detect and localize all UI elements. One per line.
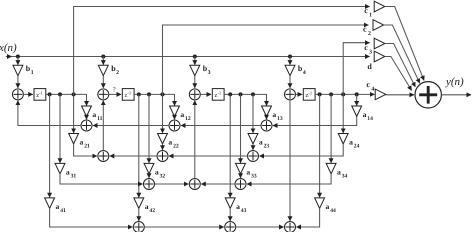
- node: tap junction state 3: [239, 92, 243, 96]
- node: junction on x(n) line for b4: [288, 55, 292, 59]
- svg-text:c: c: [363, 25, 367, 34]
- wire: vertical from state adder 4 down into last row-4 adder: [289, 100, 291, 221]
- wire: b2 output into adder: [102, 76, 104, 88]
- svg-text:41: 41: [60, 208, 66, 214]
- wire: state 3 tap down to a43: [229, 94, 231, 197]
- wire: a34 output down and left into row-3 adder under a33: [247, 174, 331, 184]
- svg-text:a: a: [66, 167, 70, 176]
- wire: adder 3 output into delay: [200, 93, 211, 95]
- wire: a32 output into row-3 adder: [148, 174, 150, 178]
- wire: state 4 output line continuing to c4: [315, 93, 374, 95]
- multiplier c1 (output coefficient): [374, 1, 385, 12]
- node: tap junction state 1: [58, 92, 62, 96]
- svg-text:33: 33: [251, 174, 257, 180]
- wire: row-3 sum up into state adder 3: [194, 101, 196, 179]
- wire: state 3 output line with taps, into a13: [224, 94, 266, 105]
- svg-text:a: a: [349, 138, 353, 147]
- multiplier a24: [338, 134, 348, 144]
- wire: y(n) output arrow: [441, 94, 471, 96]
- node: tap junction state 1: [72, 92, 76, 96]
- node: tap junction state 2: [147, 92, 151, 96]
- svg-text:12: 12: [185, 116, 191, 122]
- wire: row-2 sum up into state adder 2: [102, 101, 104, 151]
- multiplier a42: [134, 198, 144, 208]
- wire: a33 output into row-3 adder: [240, 174, 242, 178]
- wire: a12 output into row-1 adder: [174, 116, 176, 119]
- summing node row4-b (under a43): [225, 222, 236, 233]
- wire: state 2 tap down to a42: [138, 94, 140, 197]
- multiplier b2: [98, 65, 108, 75]
- wire: adder 1 output into delay: [23, 93, 33, 95]
- svg-text:a: a: [92, 110, 96, 119]
- wire: tap down into b3: [194, 57, 196, 65]
- wire: row-1 chain into adder under a12: [181, 125, 261, 127]
- wire: b1 output into adder: [17, 76, 19, 88]
- multiplier a43: [225, 198, 235, 208]
- wire: tap down into b1: [17, 57, 19, 65]
- delay element z^-1 (state 4): [303, 89, 315, 101]
- wire: b4 output into adder: [289, 76, 291, 88]
- svg-text:43: 43: [241, 208, 247, 214]
- node: junction on x(n) line for b1: [16, 55, 20, 59]
- node: tap junction state 2: [137, 92, 141, 96]
- wire: state 4 tap down to a44: [319, 94, 321, 197]
- svg-text:a: a: [337, 167, 341, 176]
- summing node (state 3 adder): [189, 89, 200, 100]
- node: tap junction state 2: [161, 92, 165, 96]
- wire: row-1 sum left and up into state adder 1: [18, 101, 81, 126]
- multiplier a41: [45, 198, 55, 208]
- wire: state 2 riser up to c2 line: [163, 25, 369, 94]
- summing node row2-b (under a22): [157, 151, 168, 162]
- wire: a24 output down and left into row-2 adder under a23: [259, 144, 343, 156]
- wire: c3 output diagonal into output adder: [385, 44, 416, 87]
- svg-text:11: 11: [97, 116, 102, 122]
- node: junction on x(n) line for b2: [101, 55, 105, 59]
- svg-text:y(n): y(n): [445, 76, 464, 88]
- svg-text:22: 22: [173, 144, 179, 150]
- wire: state 2 tap down to a22: [162, 94, 164, 132]
- wire: state 1 riser up to c1 line: [74, 7, 370, 95]
- svg-text:a: a: [180, 110, 184, 119]
- svg-text:a: a: [168, 138, 172, 147]
- delay element z^-1 (state 1): [34, 89, 46, 101]
- wire: state 4 tap down to a14: [356, 94, 358, 105]
- svg-text:x(n): x(n): [0, 42, 17, 54]
- node: tap junction state 4: [341, 92, 345, 96]
- wire: state 2 tap down to a32: [148, 94, 150, 162]
- svg-text:a: a: [246, 167, 250, 176]
- multiplier a22: [158, 134, 168, 144]
- multiplier a11: [82, 106, 92, 116]
- summing node row1-b (under a12): [169, 120, 180, 131]
- svg-text:3: 3: [208, 70, 211, 76]
- summing node row3-b (below state adder 3): [189, 179, 200, 190]
- svg-text:2: 2: [368, 31, 371, 37]
- svg-text:13: 13: [277, 116, 283, 122]
- svg-text:c: c: [366, 80, 370, 89]
- svg-text:23: 23: [264, 144, 270, 150]
- multiplier a34: [326, 163, 336, 173]
- wire: b3 output into adder: [194, 76, 196, 88]
- multiplier c2 (output coefficient): [373, 20, 384, 31]
- wire: state 1 output line with taps, into a11: [46, 94, 87, 105]
- multiplier a12: [170, 106, 180, 116]
- svg-text:2: 2: [116, 70, 119, 76]
- svg-text:24: 24: [354, 144, 360, 150]
- wire: state 1 tap down to a31: [59, 94, 61, 162]
- svg-text:c: c: [364, 6, 368, 15]
- multiplier a44: [315, 198, 325, 208]
- wire: row-4 chain into last row-4 adder: [236, 226, 284, 228]
- summing node row1-a (under a11): [81, 120, 92, 131]
- svg-text:4: 4: [371, 86, 374, 92]
- wire: a21 output down and right into row-2 first adder: [74, 144, 97, 156]
- multiplier a21: [69, 134, 79, 144]
- svg-text:34: 34: [342, 174, 348, 180]
- wire: c1 output diagonal into output adder: [385, 7, 424, 81]
- wire: row-3 left chain into middle row-3 adder: [154, 183, 188, 185]
- multiplier b4: [285, 65, 295, 75]
- svg-text:a: a: [145, 202, 149, 211]
- node: junction on x(n) line for b3: [193, 55, 197, 59]
- summing node row4-c (below state adder 4): [285, 222, 296, 233]
- wire: a43 output into row-4 adder: [229, 208, 231, 221]
- multiplier d (output coefficient): [374, 51, 385, 62]
- wire: row-3 right chain into middle row-3 adder: [201, 183, 235, 185]
- wire: c2 output diagonal into output adder: [384, 25, 420, 83]
- svg-text:42: 42: [149, 208, 155, 214]
- wire: a41 output down and right into row-4 adder under a42: [50, 208, 133, 227]
- summing node (state 2 adder): [98, 89, 109, 100]
- wire: a13 output into row-1 adder: [266, 116, 268, 119]
- delay element z^-1 (state 2): [122, 89, 134, 101]
- svg-text:4: 4: [303, 70, 306, 76]
- svg-text:21: 21: [84, 144, 90, 150]
- wire: adder 2 output into delay: [109, 93, 121, 95]
- wire: state 3 tap down to a23: [252, 94, 254, 132]
- summing node (state 4 adder): [285, 89, 296, 100]
- wire: row-2 chain into adder under a22: [169, 155, 248, 157]
- wire: x(n) main horizontal line to coefficient d: [12, 56, 370, 58]
- wire: state 2 output line with taps, into a12: [134, 94, 174, 105]
- wire: row-2 chain into first row-2 adder: [110, 155, 157, 157]
- summing node row2-c (under a23): [248, 151, 259, 162]
- wire: state 4 riser up to c3 line: [343, 43, 369, 95]
- wire: tap down into b4: [289, 57, 291, 65]
- summing node row1-c (under a13): [261, 120, 272, 131]
- wire: tap down into b2: [102, 57, 104, 65]
- wire: state 3 tap down to a33: [240, 94, 242, 162]
- wire: row-1 chain into adder under a11: [93, 125, 169, 127]
- node: tap junction state 3: [228, 92, 232, 96]
- multiplier b3: [190, 65, 200, 75]
- summing node row2-a (below state adder 2): [98, 151, 109, 162]
- wire: a44 output down and left into last row-4 adder: [296, 208, 319, 227]
- multiplier a14: [352, 106, 362, 116]
- svg-text:1: 1: [369, 12, 372, 18]
- svg-text:a: a: [80, 138, 84, 147]
- summing node row3-c (under a33): [235, 179, 246, 190]
- summing node row4-a (under a42): [133, 222, 144, 233]
- wire: a22 output into row-2 adder: [162, 144, 164, 150]
- wire: a11 output into row-1 adder: [86, 116, 88, 119]
- svg-text:d: d: [367, 62, 372, 71]
- node: tap junction state 4: [318, 92, 322, 96]
- node: tap junction state 4: [329, 92, 333, 96]
- svg-text:c: c: [364, 43, 368, 52]
- summing node row3-a (under a32): [144, 179, 155, 190]
- svg-text:a: a: [272, 110, 276, 119]
- svg-text:a: a: [363, 110, 367, 119]
- multiplier a31: [55, 163, 65, 173]
- wire: state 1 tap down to a41: [49, 94, 51, 197]
- multiplier a23: [248, 134, 258, 144]
- svg-text:31: 31: [71, 174, 77, 180]
- svg-text:44: 44: [330, 208, 336, 214]
- multiplier b1: [13, 65, 23, 75]
- node: tap junction state 1: [48, 92, 52, 96]
- svg-text:14: 14: [367, 116, 373, 122]
- wire: a14 output down and left into row-1 adder: [273, 116, 357, 125]
- multiplier a33: [236, 163, 246, 173]
- node: tap junction state 3: [251, 92, 255, 96]
- svg-text:3: 3: [369, 49, 372, 55]
- summing node (state 1 adder): [12, 89, 23, 100]
- output summing node: [415, 82, 441, 108]
- wire: adder 4 output into delay: [295, 93, 302, 95]
- svg-text:a: a: [155, 167, 159, 176]
- wire: a31 output down and right into row-3 adder under a32: [60, 174, 143, 184]
- multiplier a32: [144, 163, 154, 173]
- svg-text:1: 1: [31, 70, 34, 76]
- svg-text:a: a: [326, 202, 330, 211]
- svg-text:?: ?: [113, 86, 116, 94]
- svg-text:a: a: [259, 138, 263, 147]
- wire: c4 output into output adder: [386, 94, 414, 96]
- wire: a42 output into row-4 adder: [138, 208, 140, 221]
- svg-text:a: a: [236, 202, 240, 211]
- multiplier c3 (output coefficient): [374, 38, 385, 49]
- wire: x(n) source arrow: [6, 56, 12, 58]
- svg-text:a: a: [56, 202, 60, 211]
- multiplier c4 (output coefficient): [375, 89, 386, 100]
- multiplier a13: [262, 106, 272, 116]
- wire: a23 output into row-2 adder: [252, 144, 254, 150]
- wire: state 4 tap down to a34: [330, 94, 332, 162]
- svg-text:32: 32: [160, 174, 166, 180]
- delay element z^-1 (state 3): [212, 89, 224, 101]
- node: tap junction state 4: [355, 92, 359, 96]
- wire: d output diagonal into output adder: [385, 57, 412, 91]
- wire: state 4 tap down to a24: [342, 94, 344, 132]
- wire: state 1 tap down to a21: [73, 94, 75, 132]
- wire: row-4 chain into adder under a43: [144, 226, 224, 228]
